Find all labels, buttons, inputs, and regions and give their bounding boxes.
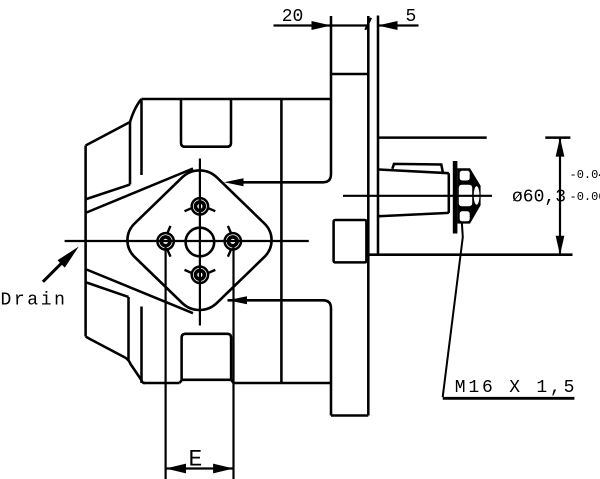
bottom-left panel top edge xyxy=(87,283,129,298)
washer xyxy=(453,161,458,234)
svg-text:M16 X 1,5: M16 X 1,5 xyxy=(455,378,577,398)
spacer block top edge xyxy=(331,73,368,76)
flange center circle xyxy=(186,228,215,257)
upper long diagonal to flange peak xyxy=(87,169,194,213)
E left arrow xyxy=(166,464,186,474)
M16 underline xyxy=(443,397,575,400)
body bottom edge right part xyxy=(234,382,332,385)
svg-text:20: 20 xyxy=(282,7,304,27)
body lower-left slant edge xyxy=(86,337,145,384)
shaft centerline xyxy=(343,195,492,197)
shaft top edge xyxy=(379,170,449,174)
housing top edge xyxy=(378,136,487,139)
flange face leader top arrow xyxy=(224,178,244,186)
drain arrow head xyxy=(58,247,79,268)
arrowheads xyxy=(58,21,565,473)
flange horizontal centerline xyxy=(65,240,309,242)
bolt hole top xyxy=(185,198,216,214)
svg-text:ø60,3: ø60,3 xyxy=(512,188,566,208)
bottom edge jog right xyxy=(231,380,233,383)
dia60 top extension segment xyxy=(545,136,570,139)
nut body xyxy=(457,168,480,223)
inner vertical bottom xyxy=(140,307,143,384)
nut middle facet xyxy=(459,185,472,207)
dia60 dimension line xyxy=(559,138,561,255)
drain arrow shaft xyxy=(43,261,64,282)
leader line M16 xyxy=(443,222,463,397)
flange face leader bottom xyxy=(228,300,332,415)
body top edge xyxy=(142,98,332,101)
svg-text:E: E xyxy=(189,447,203,473)
flange diamond xyxy=(117,161,281,320)
flange vertical centerline xyxy=(199,159,201,326)
nut bottom facet xyxy=(460,211,470,221)
right bolt extension line xyxy=(232,247,234,479)
svg-text:-0.06: -0.06 xyxy=(570,190,600,204)
bottom notch bottom edge xyxy=(182,379,231,382)
top notch xyxy=(181,99,231,147)
dim 20 line xyxy=(274,24,369,26)
left bolt extension line xyxy=(165,247,167,479)
body upper-left slant edge xyxy=(86,122,130,146)
bolt holes xyxy=(157,198,241,283)
svg-text:Drain: Drain xyxy=(1,291,68,311)
oblique tick at 368 xyxy=(365,18,371,30)
dia60 bottom arrow xyxy=(556,236,565,255)
flange face leader top: vertical + corner + horizontal xyxy=(234,16,331,182)
side port square xyxy=(334,220,367,262)
bolt hole right xyxy=(225,226,241,257)
body bottom edge left part xyxy=(143,382,180,385)
dia60 top arrow xyxy=(556,138,565,157)
bottom-left panel right edge xyxy=(127,297,130,360)
section divider vertical xyxy=(280,99,283,383)
svg-text:-0.04: -0.04 xyxy=(570,168,600,182)
E dimension line xyxy=(166,467,234,469)
bottom notch xyxy=(182,334,232,380)
shaft end face xyxy=(448,173,451,213)
spacer block bottom edge xyxy=(331,414,368,417)
svg-text:5: 5 xyxy=(406,7,417,27)
nut side lens xyxy=(474,186,480,204)
dim 20 arrow xyxy=(312,21,332,30)
plate right line xyxy=(377,16,380,255)
housing bottom edge / dim extension xyxy=(368,253,572,256)
E right arrow xyxy=(213,464,233,474)
bolt hole left xyxy=(157,226,173,257)
shaft bottom edge xyxy=(379,213,449,216)
inner vertical top xyxy=(140,101,143,176)
dim 5 arrow xyxy=(378,21,398,30)
bolt hole bottom xyxy=(185,267,216,283)
centerlines and extension lines xyxy=(65,18,560,479)
bottom edge jog left xyxy=(180,380,183,383)
body top-left corner curve xyxy=(130,99,142,122)
dim 5 line xyxy=(378,24,419,26)
body left edge xyxy=(84,146,87,337)
lower long diagonal to flange bottom corner xyxy=(87,270,194,314)
flange face leader bottom arrow xyxy=(228,296,248,304)
shaft key xyxy=(392,164,443,173)
top-left panel right edge xyxy=(129,122,132,185)
nut top facet xyxy=(460,171,470,181)
plate left line xyxy=(367,16,370,416)
top-left panel bottom edge xyxy=(87,185,131,200)
